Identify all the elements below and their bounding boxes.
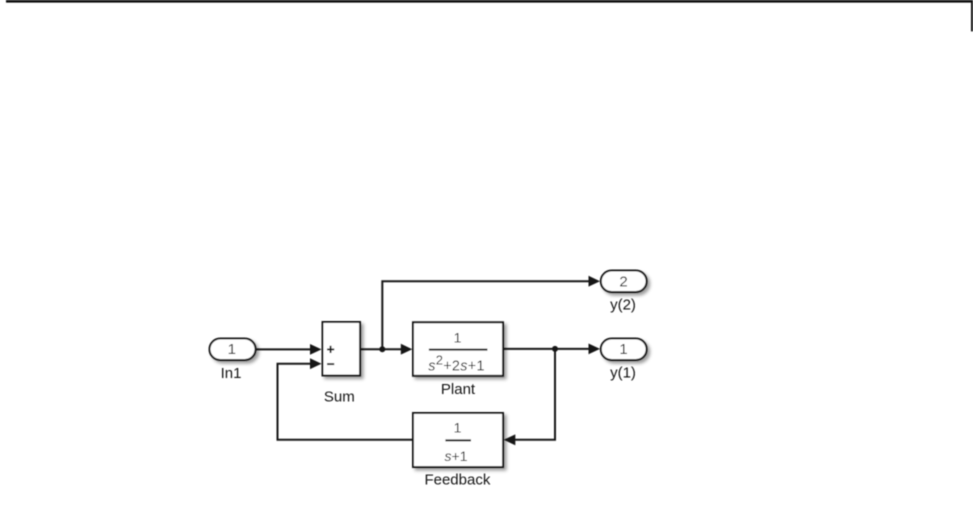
svg-text:y(1): y(1) bbox=[610, 365, 636, 382]
transfer fcn block Plant bbox=[413, 322, 503, 376]
svg-text:s+1: s+1 bbox=[445, 448, 468, 464]
svg-text:1: 1 bbox=[619, 341, 627, 358]
plus sign on Sum bbox=[327, 346, 334, 353]
svg-text:Sum: Sum bbox=[324, 389, 355, 406]
arrowhead into Out1 port bbox=[589, 344, 601, 355]
arrowhead into Out2 port bbox=[589, 276, 601, 287]
wire Feedback output left, up, to Sum minus input bbox=[278, 364, 414, 440]
arrowhead into Sum minus input bbox=[310, 358, 322, 369]
wire branch junction A up and to Out2 bbox=[382, 281, 590, 349]
arrowhead into Feedback input (pointing left) bbox=[504, 434, 516, 445]
wire branch junction B down to Feedback input bbox=[515, 349, 556, 440]
junction B dot bbox=[552, 346, 558, 352]
sum block Sum bbox=[323, 322, 361, 376]
wire In1 to Sum bbox=[255, 348, 312, 350]
transfer fcn block Feedback bbox=[413, 413, 503, 467]
arrowhead into Sum plus input bbox=[310, 344, 322, 355]
svg-text:Plant: Plant bbox=[441, 381, 476, 398]
svg-text:2: 2 bbox=[619, 273, 627, 290]
junction A dot bbox=[379, 346, 385, 352]
top border line bbox=[6, 0, 973, 3]
svg-text:1: 1 bbox=[454, 329, 462, 345]
svg-text:Feedback: Feedback bbox=[424, 472, 490, 489]
wire Plant output to junction B to Out1 bbox=[503, 348, 590, 350]
arrowhead into Plant input bbox=[401, 344, 413, 355]
Plant fraction bar bbox=[429, 349, 488, 351]
svg-text:1: 1 bbox=[228, 341, 236, 358]
minus sign on Sum bbox=[327, 363, 334, 365]
output port Out2 oval bbox=[601, 271, 647, 293]
input port In1 oval bbox=[210, 339, 256, 361]
svg-text:1: 1 bbox=[454, 420, 462, 436]
svg-text:y(2): y(2) bbox=[610, 296, 636, 313]
wire Sum output to junction A to Plant bbox=[360, 348, 403, 350]
right border tick bbox=[971, 0, 973, 31]
Feedback fraction bar bbox=[445, 439, 471, 441]
output port Out1 oval bbox=[601, 339, 647, 361]
svg-text:In1: In1 bbox=[221, 365, 242, 382]
